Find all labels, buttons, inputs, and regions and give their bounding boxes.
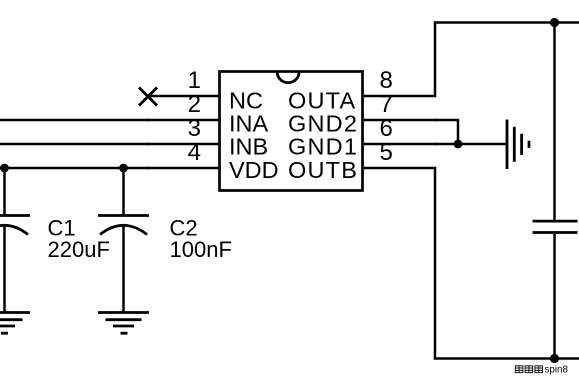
svg-text:6: 6 — [380, 115, 393, 142]
svg-text:100nF: 100nF — [170, 237, 232, 262]
wire pin6 (GND1) to ground — [363, 143, 507, 146]
svg-text:3: 3 — [188, 115, 201, 142]
junction top rail / right rail — [550, 18, 559, 27]
svg-text:OUTB: OUTB — [288, 157, 358, 183]
svg-text:GND2: GND2 — [288, 110, 358, 136]
junction C2 at VDD wire — [119, 164, 128, 173]
capacitor C1 plates — [0, 216, 30, 235]
ground right (rotated, pins 6-7) — [507, 120, 529, 170]
wire right rail lower — [553, 234, 556, 359]
svg-text:8: 8 — [380, 67, 393, 94]
svg-text:spin8: spin8 — [545, 364, 569, 375]
svg-text:1: 1 — [188, 67, 201, 94]
svg-text:7: 7 — [380, 91, 393, 118]
wire pin5 (OUTB) to bottom rail — [363, 168, 579, 359]
wire joint ticks — [147, 119, 437, 170]
svg-text:220uF: 220uF — [48, 237, 110, 262]
wire pin3 (INB) — [0, 143, 220, 146]
svg-text:5: 5 — [380, 139, 393, 166]
ground under C2 — [98, 313, 149, 334]
wire pin4 (VDD) — [0, 167, 220, 170]
wire pin2 (INA) — [0, 119, 220, 122]
capacitor C2 plates — [98, 216, 149, 235]
svg-text:GND1: GND1 — [288, 134, 358, 160]
wire right rail upper — [553, 23, 556, 220]
wire pin7 (GND2) — [363, 120, 459, 144]
svg-text:INA: INA — [229, 110, 269, 136]
no-connect X on pin 1 — [139, 88, 157, 106]
ground under C1 — [0, 313, 30, 334]
IC U1 pin-1 notch — [277, 72, 299, 83]
svg-text:4: 4 — [188, 139, 201, 166]
wire C2 bottom lead — [122, 226, 125, 313]
wire C2 top lead — [122, 168, 125, 216]
IC U1 body — [220, 72, 363, 191]
wire pin1 (NC) — [148, 95, 220, 98]
junction GND1/GND2 node — [454, 140, 463, 149]
junction C1 at VDD wire — [0, 164, 9, 173]
wire C1 bottom lead — [3, 226, 6, 313]
wire C1 top lead — [3, 168, 6, 216]
svg-text:2: 2 — [188, 91, 201, 118]
junction bottom rail / right rail — [550, 354, 559, 363]
svg-text:VDD: VDD — [229, 157, 279, 183]
capacitor C3 (right rail) — [533, 221, 578, 232]
wire pin8 (OUTA) to top rail — [363, 23, 579, 97]
watermark glyphs — [515, 366, 542, 373]
svg-text:INB: INB — [229, 134, 268, 160]
